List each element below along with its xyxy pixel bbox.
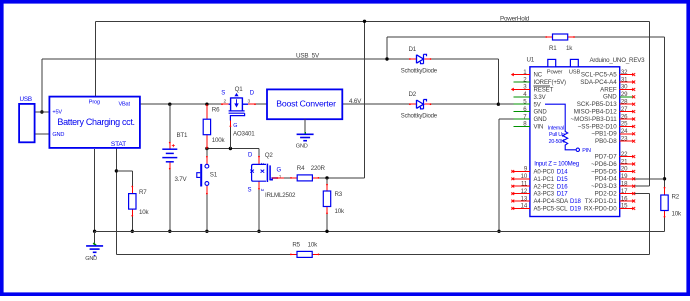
- U1 pin 9 A0-PC0 D14: [511, 166, 568, 176]
- U1 pin 7 GND: [513, 113, 547, 123]
- svg-text:10k: 10k: [335, 208, 345, 215]
- wire R3 bottom to GND rail: [326, 214, 328, 231]
- junction GND rail R3: [325, 230, 328, 233]
- svg-text:R5: R5: [292, 241, 300, 248]
- svg-text:USB: USB: [569, 69, 581, 75]
- resistor R4: [278, 175, 320, 181]
- svg-text:GND: GND: [534, 110, 548, 116]
- wire STAT bottom horizontal to R5: [116, 253, 290, 255]
- wire PowerHold down to R4 node: [364, 21, 366, 178]
- svg-text:USB_5V: USB_5V: [296, 52, 320, 59]
- U1 pin 3 RESET: [511, 84, 554, 94]
- transistor Q2 IRLML2502 N-MOSFET: [250, 156, 277, 192]
- junction GND rail R7: [131, 230, 134, 233]
- wire STAT down from battery charger: [115, 148, 117, 255]
- svg-text:R1: R1: [549, 45, 557, 52]
- U1 pin 6 GND: [513, 106, 547, 116]
- wire pin7 GND down to rail: [498, 119, 500, 231]
- U1 pin 24 ~PB1-D9: [591, 128, 635, 138]
- svg-text:21: 21: [621, 158, 628, 165]
- svg-text:~PD3-D3: ~PD3-D3: [591, 183, 617, 190]
- svg-text:SchottkyDiode: SchottkyDiode: [401, 113, 438, 119]
- wire USB_5V up to R1: [386, 37, 388, 59]
- svg-text:A0-PC0: A0-PC0: [534, 170, 555, 176]
- junction STAT R7 branch: [115, 169, 118, 172]
- wire BT1 top: [169, 104, 171, 142]
- transistor Q1 AO3401 P-MOSFET: [222, 94, 256, 127]
- svg-text:220R: 220R: [311, 165, 326, 172]
- junction D4 divider node: [663, 177, 666, 180]
- U1 pin 14 A5-PC5-SCL D19: [511, 203, 581, 213]
- svg-text:PB0-D8: PB0-D8: [595, 138, 617, 145]
- svg-text:D14: D14: [557, 170, 569, 176]
- svg-text:R2: R2: [672, 193, 680, 200]
- wire arduino pin7 GND: [499, 118, 514, 120]
- wire R7 top lead: [131, 171, 133, 186]
- wire USB_5V down to +5V junction: [41, 59, 43, 112]
- svg-text:30: 30: [621, 84, 628, 91]
- wire STAT to R7 top: [116, 170, 132, 172]
- wire USB_5V horizontal: [42, 58, 410, 60]
- junction GND rail S1: [205, 230, 208, 233]
- U1 pin 23 PB0-D8: [595, 136, 635, 146]
- svg-text:MISO-PB4-D12: MISO-PB4-D12: [574, 109, 618, 116]
- svg-text:Input Z = 100Meg: Input Z = 100Meg: [534, 160, 579, 167]
- U1 pin 13 A4-PC4-SDA D18: [511, 195, 581, 205]
- svg-text:16: 16: [621, 195, 628, 202]
- block Boost Converter: [267, 89, 342, 119]
- svg-text:GND: GND: [52, 132, 64, 138]
- svg-text:R3: R3: [335, 191, 343, 198]
- svg-text:D19: D19: [570, 207, 582, 213]
- svg-text:11: 11: [521, 181, 528, 188]
- U1 pin 28 SCK-PB5-D13: [577, 99, 635, 109]
- svg-text:AREF: AREF: [600, 86, 617, 93]
- battery BT1: [162, 142, 177, 169]
- svg-text:~PB1-D9: ~PB1-D9: [591, 131, 617, 138]
- svg-text:RESET: RESET: [534, 88, 554, 94]
- resistor R5: [290, 251, 319, 257]
- svg-text:28: 28: [621, 99, 628, 106]
- svg-text:A1-PC1: A1-PC1: [534, 177, 555, 183]
- wire USB GND to charger: [35, 133, 50, 135]
- svg-text:Battery Charging cct.: Battery Charging cct.: [57, 117, 134, 127]
- wire S1 top: [206, 149, 208, 157]
- resistor R7: [129, 186, 136, 217]
- wire Q1 gate down: [229, 127, 231, 149]
- wire R4 to PowerHold vertical: [319, 177, 364, 179]
- junction GND rail left end: [93, 230, 96, 233]
- svg-text:27: 27: [621, 106, 628, 113]
- svg-text:20: 20: [621, 166, 628, 173]
- U1 pin 5 5V: [513, 99, 540, 109]
- wire divider vertical to D4 node: [664, 37, 666, 187]
- ground symbol boost converter: [297, 132, 314, 141]
- junction +5V USB: [40, 110, 43, 113]
- svg-text:~PD6-D6: ~PD6-D6: [591, 161, 617, 168]
- svg-text:32: 32: [621, 69, 628, 76]
- svg-text:23: 23: [621, 136, 628, 143]
- wire D1 down to 5V node: [497, 59, 499, 104]
- svg-text:~PD5-D5: ~PD5-D5: [591, 168, 617, 175]
- junction GND rail BT1: [168, 230, 171, 233]
- wire Q1 drain to boost input: [256, 103, 268, 105]
- svg-text:D17: D17: [557, 192, 569, 198]
- wire R1 right to divider: [575, 36, 665, 38]
- svg-text:VIN: VIN: [534, 125, 544, 131]
- U1 pin 4 3.3V: [513, 91, 545, 101]
- resistor R6: [203, 106, 210, 148]
- svg-text:PD7-D7: PD7-D7: [595, 154, 618, 161]
- wire BT1 bottom to GND rail: [169, 169, 171, 231]
- svg-text:10k: 10k: [308, 241, 318, 248]
- svg-text:SCK-PB5-D13: SCK-PB5-D13: [577, 101, 617, 108]
- U1 internal pull-up drawing: [545, 104, 580, 151]
- U1 pin 26 ~MOSI-PB3-D11: [571, 113, 636, 123]
- svg-text:3.3V: 3.3V: [534, 95, 546, 101]
- svg-text:RX-PD0-D0: RX-PD0-D0: [584, 205, 617, 212]
- svg-text:S: S: [248, 188, 252, 194]
- svg-text:12: 12: [521, 188, 528, 195]
- svg-text:GND: GND: [85, 256, 97, 262]
- svg-text:10: 10: [521, 173, 528, 180]
- svg-text:TX-PD1-D1: TX-PD1-D1: [585, 198, 618, 205]
- wire Q2 source to GND rail: [258, 190, 260, 232]
- svg-text:26: 26: [621, 113, 628, 120]
- switch S1: [197, 156, 209, 194]
- wire 5V node to arduino pin5: [498, 103, 514, 105]
- junction GND rail pin7: [497, 230, 500, 233]
- svg-text:IOREF(+5V): IOREF(+5V): [534, 80, 567, 86]
- svg-text:19: 19: [621, 173, 628, 180]
- svg-text:13: 13: [521, 195, 528, 202]
- svg-text:+5V: +5V: [52, 109, 62, 115]
- U1 pin 22 PD7-D7: [595, 151, 636, 161]
- U1 pin 1 NC: [511, 69, 543, 79]
- junction 5V node: [497, 103, 500, 106]
- svg-text:S1: S1: [210, 172, 218, 179]
- wire pin17 PD2-D2: [634, 193, 650, 195]
- svg-text:VBat: VBat: [119, 101, 131, 107]
- svg-text:PD4-D4: PD4-D4: [595, 176, 618, 183]
- svg-text:R6: R6: [212, 107, 220, 114]
- svg-text:~SS-PB2-D10: ~SS-PB2-D10: [578, 123, 618, 130]
- svg-text:USB: USB: [20, 96, 32, 103]
- junction GND rail Q2: [257, 230, 260, 233]
- svg-text:15: 15: [621, 203, 628, 210]
- junction USB_5V R1 branch: [385, 57, 388, 60]
- svg-text:STAT: STAT: [111, 141, 126, 148]
- svg-text:Pull Up: Pull Up: [549, 132, 565, 138]
- resistor R1: [546, 34, 575, 40]
- svg-text:31: 31: [621, 76, 628, 83]
- wire PowerHold down to Prog: [94, 21, 96, 96]
- svg-text:17: 17: [621, 188, 628, 195]
- junction PowerHold x364: [363, 20, 366, 23]
- svg-text:5V: 5V: [534, 102, 541, 108]
- U1 pin 29 GND: [603, 91, 635, 101]
- U1 pin 19 PD4-D4: [595, 173, 636, 183]
- svg-text:18: 18: [621, 181, 628, 188]
- svg-text:A5-PC5-SCL: A5-PC5-SCL: [534, 207, 569, 213]
- svg-text:D16: D16: [557, 184, 569, 190]
- wire D2 cathode to 5V node: [431, 103, 498, 105]
- svg-text:NC: NC: [534, 73, 543, 79]
- wire pin18 to PowerHold vertical: [634, 185, 650, 187]
- U1 internal pull-up label: [548, 125, 565, 145]
- svg-text:Power: Power: [547, 69, 563, 75]
- svg-text:D18: D18: [570, 199, 582, 205]
- U1 pin 16 TX-PD1-D1: [585, 195, 635, 205]
- svg-text:10k: 10k: [139, 209, 149, 216]
- svg-text:Internal: Internal: [548, 125, 564, 131]
- junction VBat BT1: [168, 103, 171, 106]
- svg-text:Boost Converter: Boost Converter: [276, 98, 336, 108]
- wire Q2 drain from gate node: [258, 149, 260, 157]
- wire GND rail: [95, 230, 665, 232]
- svg-text:29: 29: [621, 91, 628, 98]
- svg-text:14: 14: [521, 203, 528, 210]
- svg-text:R4: R4: [297, 165, 305, 172]
- component pin end markers: [131, 36, 665, 255]
- wire D1 cathode: [431, 58, 498, 60]
- op-amp U1 Arduino_UNO_REV3 block: [530, 59, 620, 216]
- U1 pin 17 PD2-D2: [595, 188, 636, 198]
- svg-text:25: 25: [621, 121, 628, 128]
- wire R2 bottom to GND rail: [664, 218, 666, 232]
- wire up to arduino pin17: [648, 194, 650, 255]
- U1 pin 20 ~PD5-D5: [591, 166, 635, 176]
- resistor R2: [661, 187, 668, 218]
- diode D2 Schottky: [410, 100, 432, 109]
- wire PowerHold down to pin18: [648, 21, 650, 186]
- svg-text:100k: 100k: [212, 137, 226, 144]
- U1 pin 21 ~PD6-D6: [591, 158, 635, 168]
- U1 pin 27 MISO-PB4-D12: [574, 106, 635, 116]
- wire gate node R6 bottom to Q2 drain: [207, 148, 259, 150]
- wire S1 bottom to GND rail: [206, 194, 208, 231]
- wire R5 right to D2 pin vertical: [319, 253, 649, 255]
- svg-text:BT1: BT1: [177, 132, 189, 139]
- svg-text:Arduino_UNO_REV3: Arduino_UNO_REV3: [590, 57, 646, 64]
- svg-text:~MOSI-PB3-D11: ~MOSI-PB3-D11: [571, 116, 618, 123]
- svg-text:PIN: PIN: [582, 148, 591, 154]
- svg-text:20-50K: 20-50K: [549, 139, 566, 145]
- U1 pin 31 SDA-PC4-A4: [580, 76, 635, 86]
- svg-text:SCL-PC5-A5: SCL-PC5-A5: [581, 72, 617, 79]
- svg-text:D15: D15: [557, 177, 569, 183]
- svg-text:G: G: [233, 123, 237, 129]
- svg-text:D2: D2: [409, 91, 417, 98]
- svg-text:24: 24: [621, 128, 628, 135]
- svg-text:22: 22: [621, 151, 628, 158]
- svg-text:A2-PC2: A2-PC2: [534, 184, 555, 190]
- svg-text:A3-PC3: A3-PC3: [534, 192, 555, 198]
- resistor R3: [323, 184, 330, 214]
- wire battery charger GND to rail: [94, 149, 96, 231]
- svg-text:IRLML2502: IRLML2502: [265, 192, 296, 199]
- wire R3 top lead: [326, 178, 328, 184]
- junction Q1 gate node: [229, 147, 232, 150]
- svg-text:G: G: [277, 167, 282, 173]
- svg-text:U1: U1: [527, 57, 535, 64]
- svg-text:S: S: [221, 91, 225, 97]
- svg-text:PD2-D2: PD2-D2: [595, 191, 618, 198]
- svg-text:SDA-PC4-A4: SDA-PC4-A4: [580, 79, 617, 86]
- diode D1 Schottky: [410, 54, 432, 63]
- wire USB +5V to charger: [35, 111, 50, 113]
- wire pin19 PD4-D4: [634, 178, 665, 180]
- wire R1 left feed: [387, 36, 546, 38]
- U1 pin 10 A1-PC1 D15: [511, 173, 568, 183]
- U1 pin 25 ~SS-PB2-D10: [578, 121, 636, 131]
- svg-text:Prog: Prog: [89, 99, 100, 105]
- svg-text:A4-PC4-SDA: A4-PC4-SDA: [534, 199, 570, 205]
- wire R7 bottom to GND rail: [131, 217, 133, 232]
- svg-text:Q2: Q2: [265, 152, 274, 159]
- svg-text:SchottkyDiode: SchottkyDiode: [401, 68, 438, 74]
- svg-text:3.7V: 3.7V: [175, 176, 188, 183]
- wire VBat from battery charger: [140, 103, 222, 105]
- U1 pin 15 RX-PD0-D0: [584, 203, 635, 213]
- wire PowerHold horizontal top: [95, 20, 649, 22]
- block Battery Charging cct: [49, 97, 139, 148]
- ground symbol main GND rail: [86, 231, 103, 256]
- U1 pin 30 AREF: [600, 84, 635, 94]
- junction VBat R6: [205, 103, 208, 106]
- svg-text:D1: D1: [409, 46, 417, 53]
- junction R4 R3 node: [325, 176, 328, 179]
- U1 pin 12 A3-PC3 D17: [511, 188, 568, 198]
- wire boost GND lead: [304, 119, 306, 132]
- U1 pin 8 VIN: [513, 121, 543, 131]
- U1 pin 18 ~PD3-D3: [591, 181, 635, 191]
- U1 pin 2 IOREF(+5V): [513, 76, 566, 86]
- svg-text:GND: GND: [534, 117, 548, 123]
- U1 pin 11 A2-PC2 D16: [511, 181, 568, 191]
- wire boost output 4.6V: [342, 103, 409, 105]
- svg-text:Q1: Q1: [235, 86, 244, 93]
- svg-text:10k: 10k: [672, 210, 682, 217]
- junction R6 bottom: [205, 147, 208, 150]
- svg-text:AO3401: AO3401: [233, 130, 255, 137]
- svg-text:R7: R7: [139, 189, 147, 196]
- svg-text:GND: GND: [296, 143, 308, 149]
- svg-text:GND: GND: [603, 94, 617, 101]
- U1 pin 32 SCL-PC5-A5: [581, 69, 635, 79]
